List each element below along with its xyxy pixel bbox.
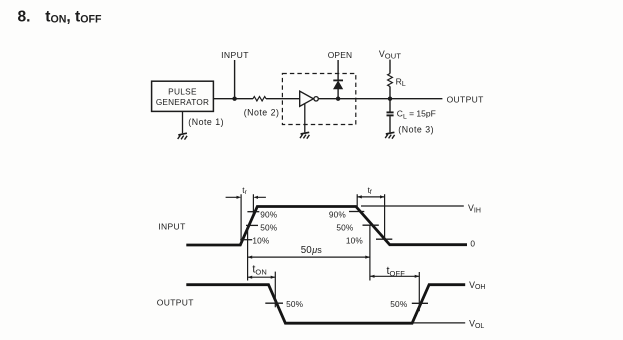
reference line VIH xyxy=(361,205,464,207)
title: 8. tON, tOFF xyxy=(18,8,102,25)
svg-text:90%: 90% xyxy=(329,210,347,220)
INPUT waveform xyxy=(186,207,467,246)
tf measure verticals xyxy=(357,194,384,239)
input falling edge ticks xyxy=(349,212,392,240)
tOFF dimension arrows xyxy=(370,275,419,278)
wire: resistor to inverter xyxy=(266,98,300,100)
wire: output node to capacitor xyxy=(389,99,391,112)
input rising edge ticks xyxy=(240,212,259,240)
tr dimension arrows xyxy=(226,196,266,199)
svg-text:INPUT: INPUT xyxy=(221,50,249,60)
DUT dashed box xyxy=(282,74,355,125)
50% verticals (input edges) xyxy=(248,225,370,280)
ground (capacitor) xyxy=(385,132,394,138)
svg-text:10%: 10% xyxy=(346,236,364,246)
svg-text:OUTPUT: OUTPUT xyxy=(447,94,484,104)
svg-text:10%: 10% xyxy=(252,236,270,246)
wire: VOUT stem xyxy=(389,60,391,74)
inverter U1 xyxy=(300,91,319,106)
ground (pulse generator) xyxy=(178,133,187,139)
pulse generator box xyxy=(152,81,214,111)
wire: pulse generator output to resistor xyxy=(213,98,253,100)
capacitor CL xyxy=(387,112,394,115)
tr measure verticals xyxy=(241,194,253,245)
wire: INPUT stem xyxy=(234,60,236,99)
svg-text:PULSE: PULSE xyxy=(168,87,197,97)
diode D1 (to OPEN) xyxy=(333,80,343,98)
wire: pulse generator ground stem xyxy=(182,111,184,133)
resistor (Note 2) xyxy=(253,97,266,101)
wire: inverter ground stem xyxy=(304,104,306,133)
labels 90/50/10 left xyxy=(252,210,277,246)
svg-text:INPUT: INPUT xyxy=(158,222,186,232)
svg-text:50%: 50% xyxy=(260,223,278,233)
tOFF measure vertical xyxy=(418,272,420,311)
svg-text:(Note 3): (Note 3) xyxy=(398,125,434,135)
50us dimension xyxy=(248,256,370,259)
svg-text:OPEN: OPEN xyxy=(328,50,353,60)
svg-text:90%: 90% xyxy=(260,210,278,220)
node: input junction xyxy=(232,97,236,101)
svg-text:50%: 50% xyxy=(286,299,304,309)
svg-text:50%: 50% xyxy=(336,223,354,233)
output 50% ticks xyxy=(265,302,428,304)
svg-text:8.: 8. xyxy=(18,8,31,25)
svg-text:GENERATOR: GENERATOR xyxy=(156,98,209,107)
svg-text:VOUT: VOUT xyxy=(379,49,402,60)
OUTPUT waveform xyxy=(186,285,465,324)
labels 50% output xyxy=(286,299,408,309)
tf dimension arrows xyxy=(357,195,384,198)
wire: capacitor to ground xyxy=(389,116,391,132)
svg-text:(Note 2): (Note 2) xyxy=(244,108,280,118)
svg-text:OUTPUT: OUTPUT xyxy=(157,298,194,308)
ground (inverter) xyxy=(300,132,309,138)
node: diode junction xyxy=(336,97,340,101)
node: output junction xyxy=(388,97,392,101)
svg-text:50μs: 50μs xyxy=(301,245,322,256)
tON dimension arrows xyxy=(248,276,276,279)
resistor RL xyxy=(388,74,393,87)
tON measure vertical xyxy=(274,272,276,308)
labels 90/50/10 right xyxy=(329,210,364,246)
wire: OPEN stem xyxy=(337,60,339,80)
reference line VOL xyxy=(412,322,465,324)
svg-text:CL = 15pF: CL = 15pF xyxy=(397,109,436,121)
wire: RL to output node xyxy=(389,86,391,98)
svg-text:50%: 50% xyxy=(390,299,408,309)
wire: inverter output to OUTPUT end xyxy=(318,98,442,100)
svg-text:0: 0 xyxy=(470,239,475,249)
svg-text:(Note 1): (Note 1) xyxy=(188,117,224,127)
